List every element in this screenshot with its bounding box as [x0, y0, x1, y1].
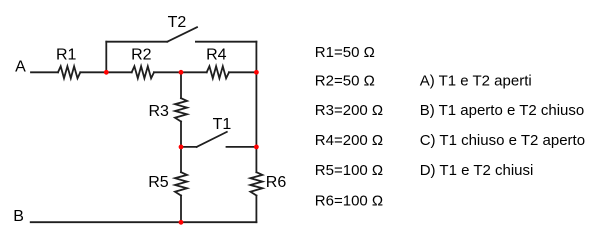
- svg-text:A) T1 e T2 aperti: A) T1 e T2 aperti: [420, 73, 532, 90]
- svg-text:R6: R6: [266, 174, 287, 191]
- svg-text:R4=200 Ω: R4=200 Ω: [315, 132, 383, 149]
- svg-text:B) T1 aperto e T2 chiuso: B) T1 aperto e T2 chiuso: [420, 102, 585, 119]
- svg-text:R2: R2: [131, 47, 152, 64]
- svg-text:T2: T2: [168, 14, 187, 31]
- svg-text:R3=200 Ω: R3=200 Ω: [315, 102, 383, 119]
- svg-text:T1: T1: [213, 116, 232, 133]
- svg-text:R3: R3: [149, 103, 170, 120]
- svg-text:R6=100 Ω: R6=100 Ω: [315, 193, 383, 210]
- svg-text:R4: R4: [206, 47, 227, 64]
- svg-text:C) T1 chiuso e T2 aperto: C) T1 chiuso e T2 aperto: [420, 132, 585, 149]
- svg-text:R1=50 Ω: R1=50 Ω: [315, 44, 375, 61]
- svg-text:R5=100 Ω: R5=100 Ω: [315, 162, 383, 179]
- svg-text:R2=50 Ω: R2=50 Ω: [315, 73, 375, 90]
- svg-text:A: A: [15, 58, 26, 75]
- svg-text:D) T1 e T2 chiusi: D) T1 e T2 chiusi: [420, 162, 534, 179]
- svg-text:R1: R1: [56, 47, 77, 64]
- svg-text:R5: R5: [148, 174, 169, 191]
- svg-text:B: B: [13, 208, 24, 225]
